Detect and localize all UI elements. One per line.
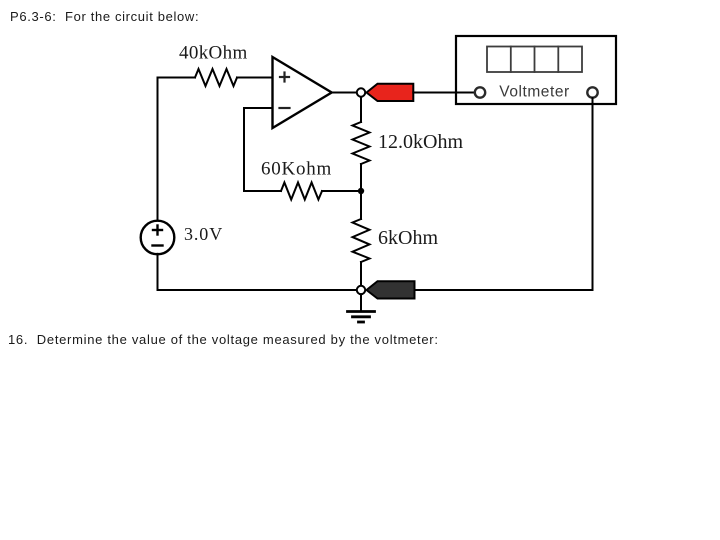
op-amp plus input symbol [280,73,289,82]
label 6kOhm [378,227,438,249]
resistor 60Kohm zigzag [281,183,322,200]
wire 40k to op-amp +input [237,77,273,79]
red probe plug [367,84,414,101]
voltmeter label text [499,84,569,101]
svg-text:40kOhm: 40kOhm [179,43,248,64]
wire op-amp output [332,92,357,94]
black probe plug [367,281,415,298]
op-amp U1 triangle [273,57,332,128]
label 3.0V [184,224,223,244]
question text [8,332,439,347]
voltmeter right terminal [587,87,597,97]
voltmeter display [487,47,582,73]
wire voltmeter right terminal down [592,98,594,290]
voltmeter left terminal [475,87,485,97]
svg-text:Voltmeter: Voltmeter [499,84,569,101]
wire minus input [244,107,273,109]
svg-text:12.0kOhm: 12.0kOhm [378,131,463,153]
wire feedback horizontal right [322,190,361,192]
wire left branch vertical [157,78,159,222]
node output open circle [357,88,365,96]
ground stub wire [360,294,362,311]
resistor 6kOhm zigzag [353,219,370,262]
bottom node open circle [357,286,365,294]
junction dot [358,188,364,194]
label 12.0kOhm [378,131,463,153]
wire bottom-left horizontal [158,289,357,291]
voltage source 3.0V [141,221,175,255]
wire 6k to bottom node [360,262,362,290]
resistor 12.0kOhm zigzag [353,122,370,164]
wire top-left segment (+input to 40k) [158,77,196,79]
wire node to 12k top [360,97,362,123]
label 60Kohm [261,159,332,180]
svg-text:3.0V: 3.0V [184,224,223,244]
ground symbol [348,312,375,323]
wire bottom-right horizontal [415,289,593,291]
resistor 40kOhm zigzag [195,69,237,86]
svg-text:60Kohm: 60Kohm [261,159,332,180]
wire junction to 6k top [360,191,362,219]
wire red probe to voltmeter [413,92,474,94]
wire source to bottom [157,254,159,290]
wire 12k to junction [360,164,362,191]
wire feedback vertical [243,108,245,191]
title text [10,9,199,24]
voltmeter box [456,36,616,104]
svg-text:6kOhm: 6kOhm [378,227,438,249]
op-amp minus input symbol [280,107,290,109]
wire feedback horizontal left [244,190,281,192]
label 40kOhm [179,43,248,64]
